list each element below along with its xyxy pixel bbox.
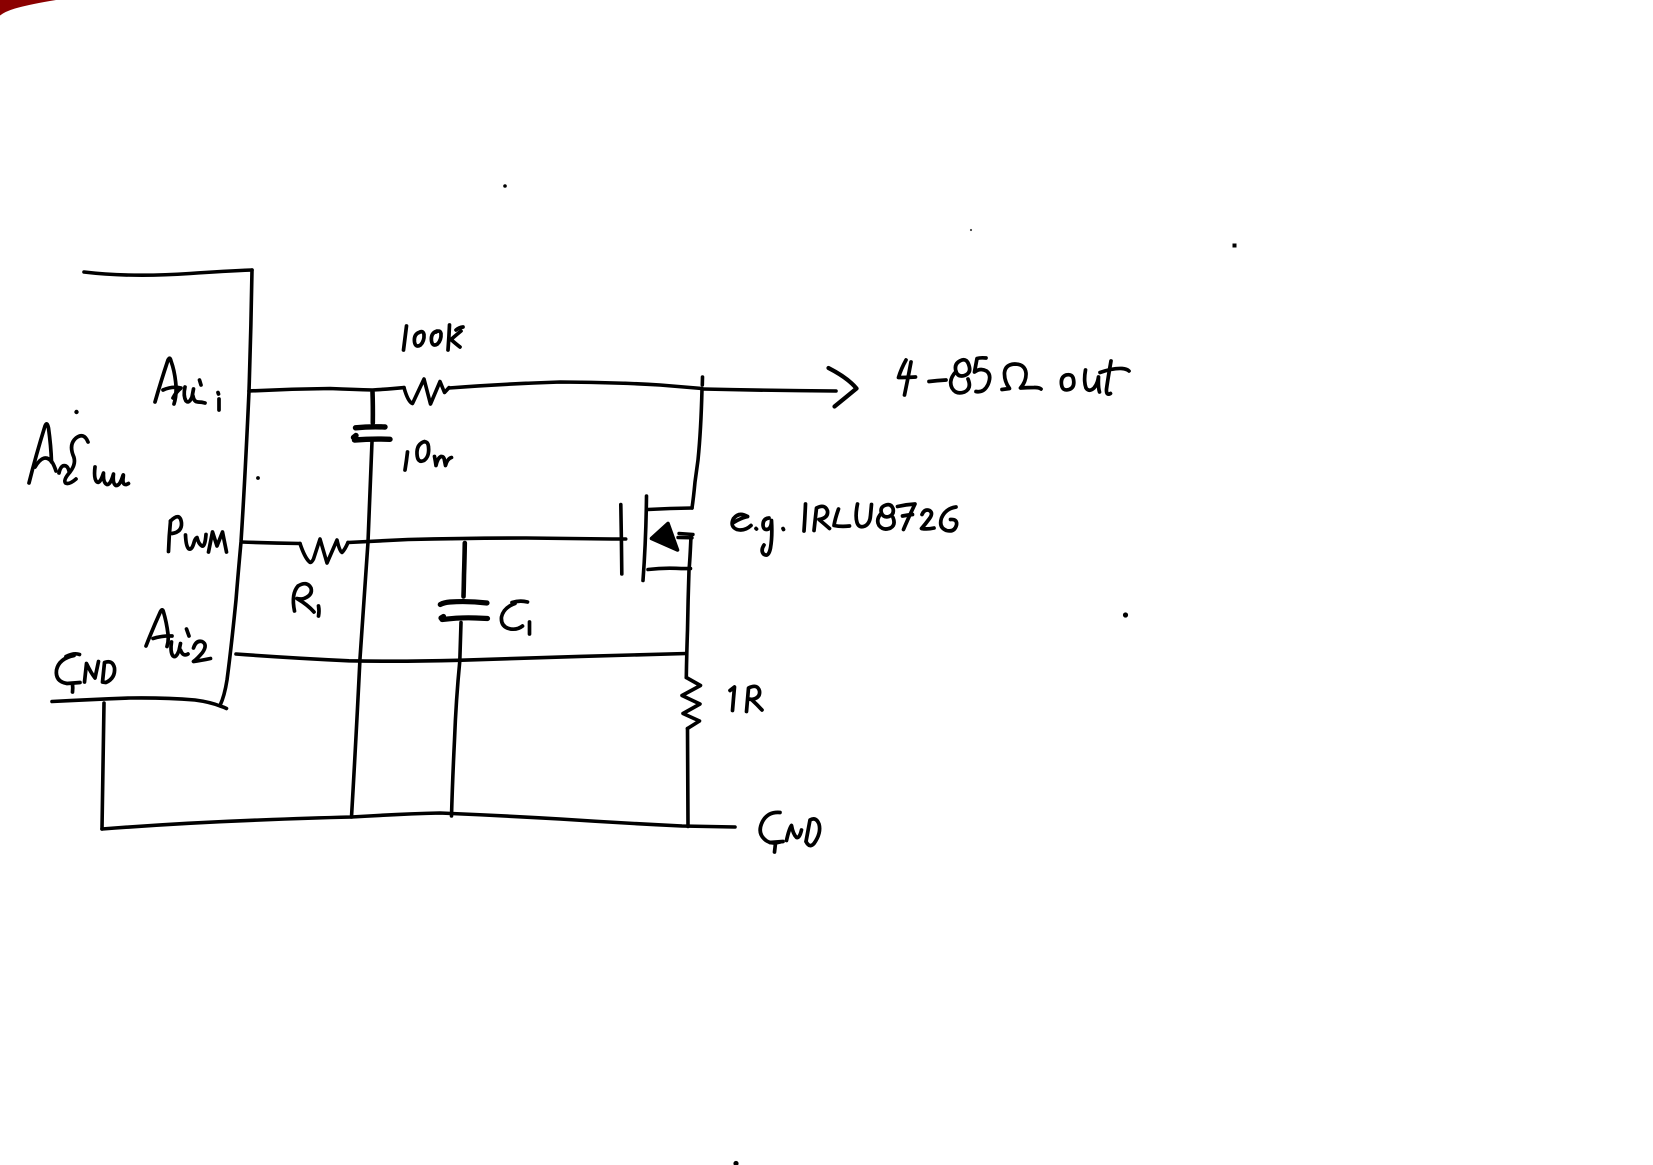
- transistor Q1 MOSFET drain stub: [648, 508, 692, 510]
- wire 10n capacitor down to ground rail: [352, 442, 373, 818]
- label C1: [501, 601, 529, 634]
- wire Ain2 pin to MOSFET source node: [236, 654, 687, 662]
- pin label Ain2: [146, 610, 211, 662]
- output arrowhead: [829, 368, 857, 407]
- resistor R1: [300, 539, 348, 563]
- wire GND drop to ground rail: [102, 703, 104, 829]
- value label 100k: [404, 325, 464, 350]
- label Arduino: [29, 424, 129, 486]
- wire output node down to MOSFET drain: [692, 377, 703, 508]
- capacitor 10n top plate: [356, 427, 386, 428]
- capacitor C1 bottom plate: [441, 617, 488, 620]
- wire Ain1 net segment from pin to 100k: [249, 388, 404, 391]
- output arrow wire: [703, 389, 836, 391]
- wire GND pin from IC bottom edge: [52, 698, 227, 709]
- transistor Q1 MOSFET body stub: [678, 534, 693, 538]
- wire 1R down to ground rail: [686, 729, 690, 827]
- transistor Q1 MOSFET source stub: [648, 568, 691, 569]
- pin label PWM: [169, 517, 227, 552]
- wire R1 to MOSFET gate with C1 junction: [348, 538, 626, 543]
- label 1R: [730, 686, 762, 711]
- wire MOSFET source down to 1R: [686, 536, 691, 678]
- resistor 1R: [682, 678, 701, 729]
- label 4-85R out: [899, 358, 1130, 395]
- wire PWM pin to R1: [242, 542, 301, 544]
- label e.g. IRLU8726: [732, 504, 957, 555]
- wire C1 down to ground rail: [452, 623, 462, 817]
- transistor Q1 MOSFET gate bar: [621, 505, 622, 575]
- value label 10n: [405, 442, 452, 471]
- capacitor 10n bottom plate: [354, 436, 391, 441]
- wire ground rail: [102, 813, 735, 829]
- resistor 100k: [404, 379, 449, 404]
- wire Ain1 net segment from 100k to output node: [449, 382, 702, 389]
- transistor Q1 MOSFET body arrow: [652, 524, 678, 551]
- capacitor C1 stub: [464, 543, 465, 597]
- capacitor 10n stub: [370, 392, 375, 423]
- transistor Q1 MOSFET channel bar: [643, 496, 647, 581]
- label R1: [293, 584, 319, 616]
- capacitor C1 top plate: [440, 602, 487, 605]
- pin label Ain1: [155, 358, 219, 410]
- IC U1 Arduino partial outline: [84, 270, 252, 706]
- label GND bottom: [760, 812, 819, 852]
- pin label GND left: [56, 654, 114, 692]
